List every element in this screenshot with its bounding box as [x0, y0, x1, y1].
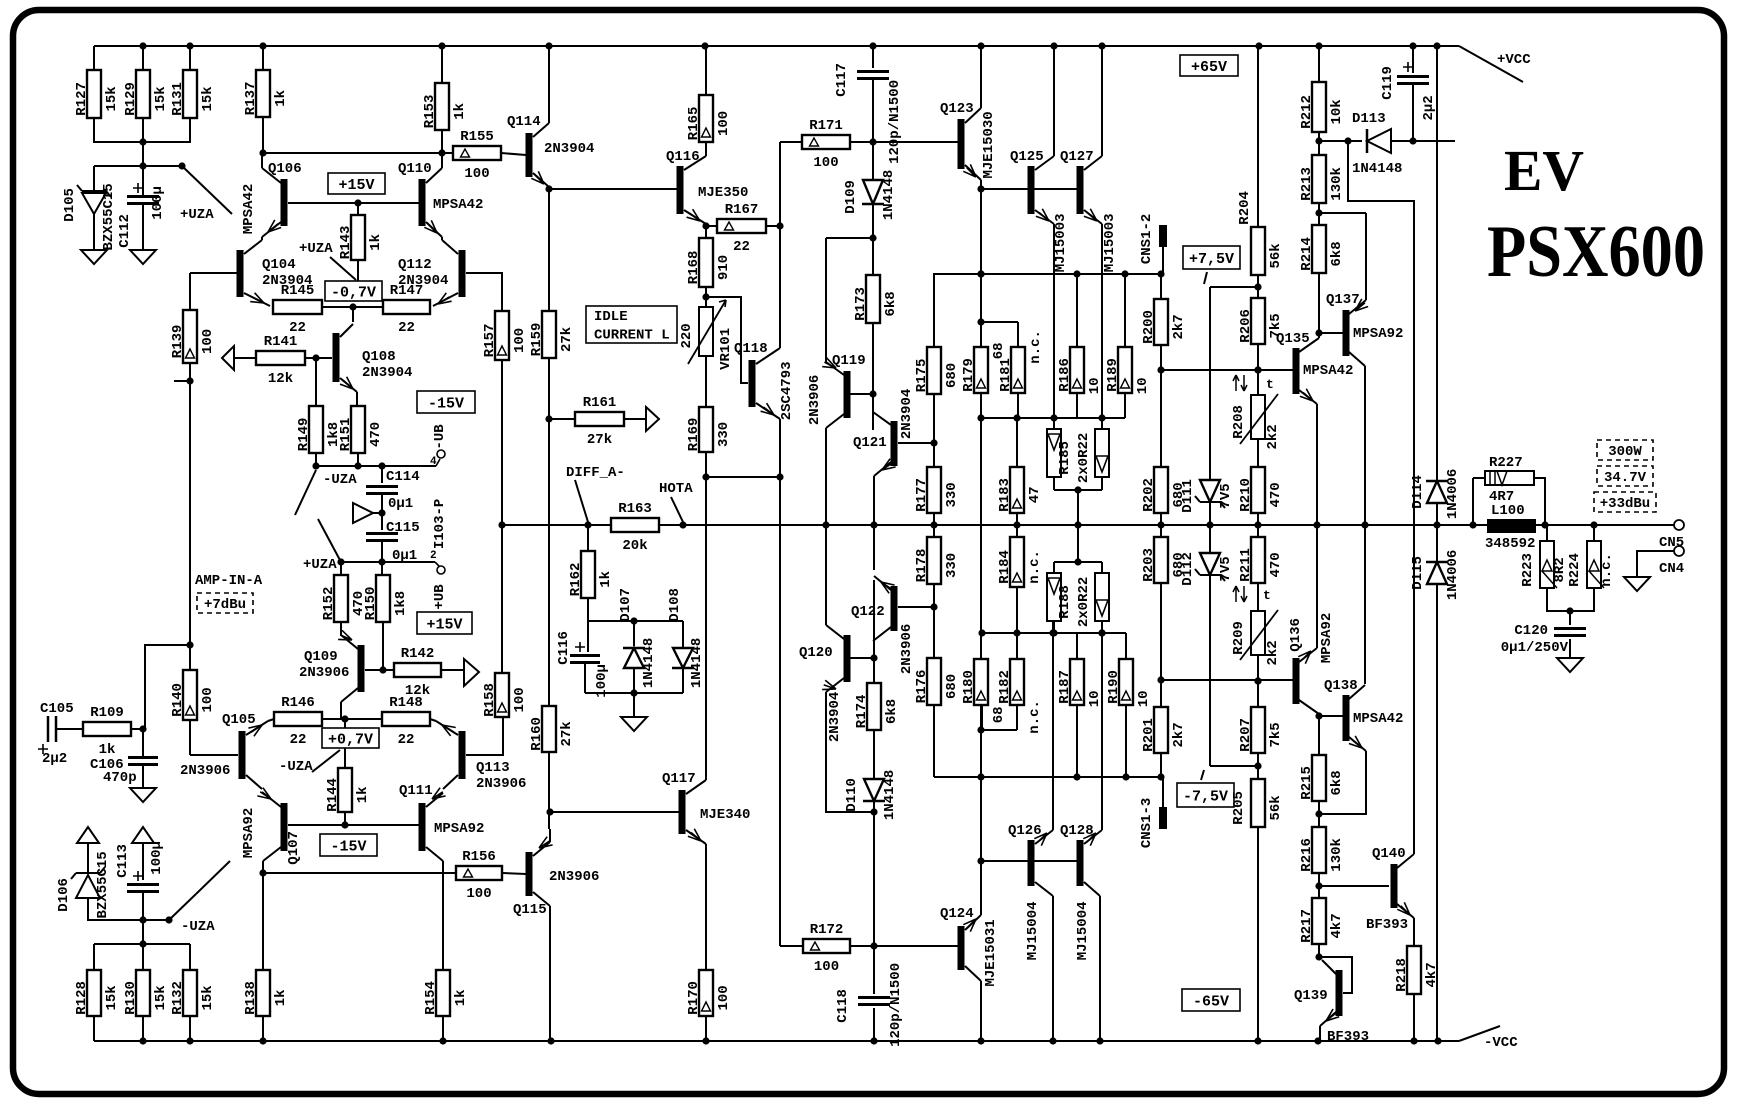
node +UZA — [178, 162, 185, 169]
svg-text:R218: R218 — [1394, 958, 1410, 992]
wire — [373, 512, 382, 514]
svg-text:R165: R165 — [686, 107, 702, 141]
wire — [1053, 621, 1055, 633]
svg-text:MJE15031: MJE15031 — [983, 919, 999, 986]
wire — [189, 944, 191, 970]
svg-text:R130: R130 — [123, 981, 139, 1015]
wire — [825, 525, 827, 625]
wire — [981, 705, 983, 730]
wire — [344, 812, 346, 825]
svg-text:AMP-IN-A: AMP-IN-A — [195, 573, 263, 589]
junction — [1254, 762, 1261, 769]
wire — [441, 153, 443, 168]
junction output bus — [1313, 521, 1320, 528]
junction — [977, 270, 984, 277]
svg-text:D110: D110 — [844, 778, 860, 812]
resistor R168 — [686, 238, 732, 287]
svg-text:R214: R214 — [1299, 237, 1315, 271]
wire HOTA callout — [671, 497, 683, 522]
junction — [312, 354, 319, 361]
svg-text:R171: R171 — [809, 118, 843, 134]
wire — [705, 46, 707, 95]
resistor R218 — [1394, 946, 1440, 994]
zener D105 — [62, 183, 117, 250]
wire — [873, 801, 875, 994]
trimmer R208 — [1231, 394, 1281, 450]
svg-text:Q109: Q109 — [304, 649, 338, 665]
terminal arrow — [77, 827, 99, 843]
svg-text:R160: R160 — [529, 717, 545, 751]
resistor R154 — [423, 970, 469, 1016]
svg-text:-0,7V: -0,7V — [331, 284, 376, 301]
ground — [1624, 577, 1650, 591]
svg-text:R223: R223 — [1520, 553, 1536, 587]
wire — [189, 720, 191, 755]
junction — [186, 641, 193, 648]
wire — [190, 272, 237, 274]
wire — [1318, 873, 1320, 898]
wire — [872, 46, 874, 68]
wire — [779, 142, 781, 348]
wire — [1162, 777, 1164, 807]
svg-text:HOTA: HOTA — [659, 481, 693, 497]
resistor R216 — [1299, 827, 1345, 873]
wire — [1257, 655, 1259, 707]
wire — [305, 357, 332, 359]
svg-text:2k2: 2k2 — [1265, 640, 1281, 665]
wire — [1319, 885, 1389, 887]
junction — [702, 222, 709, 229]
junction — [1050, 414, 1057, 421]
transistor Q116 — [666, 149, 748, 224]
wire — [1547, 588, 1594, 611]
svg-text:Q127: Q127 — [1060, 149, 1094, 165]
svg-text:1N4148: 1N4148 — [881, 170, 897, 220]
wire — [189, 46, 191, 70]
wire -UZA node — [88, 898, 169, 920]
transistor Q125 — [1010, 149, 1069, 272]
svg-text:47: 47 — [1027, 486, 1043, 503]
wire -UZA callout — [169, 894, 196, 920]
svg-text:R132: R132 — [170, 981, 186, 1015]
wire — [1101, 621, 1103, 633]
junction — [977, 414, 984, 421]
svg-text:MJ15003: MJ15003 — [1053, 213, 1069, 272]
wire — [872, 323, 874, 430]
wire — [1077, 525, 1079, 562]
junction bottom bus — [977, 1037, 984, 1044]
resistor R147 — [383, 283, 430, 336]
wire — [585, 692, 683, 694]
wire — [1124, 393, 1126, 418]
svg-text:R224: R224 — [1567, 553, 1583, 587]
svg-text:100: 100 — [813, 155, 838, 171]
resistor R132 — [170, 970, 216, 1016]
junction top bus — [1433, 42, 1440, 49]
wire — [1391, 140, 1455, 142]
wire — [262, 46, 264, 70]
transistor Q139 — [1294, 960, 1369, 1045]
junction — [379, 666, 386, 673]
capacitor C113 — [127, 871, 159, 892]
svg-text:7V5: 7V5 — [1218, 483, 1234, 508]
svg-text:330: 330 — [716, 422, 732, 447]
svg-text:R177: R177 — [914, 478, 930, 512]
voltage box -65V — [1182, 989, 1240, 1011]
resistor R152 — [321, 575, 367, 622]
svg-text:10: 10 — [1087, 377, 1103, 394]
wire — [872, 79, 874, 180]
wire — [825, 428, 827, 525]
junction output bus — [1541, 521, 1548, 528]
svg-text:330: 330 — [944, 553, 960, 578]
resistor R190 — [1106, 659, 1133, 705]
ground — [130, 788, 156, 802]
svg-text:100µ: 100µ — [149, 841, 165, 875]
voltage box +65V — [1180, 55, 1238, 76]
svg-text:910: 910 — [716, 255, 732, 280]
svg-text:C116: C116 — [556, 631, 572, 665]
svg-text:348592: 348592 — [1485, 536, 1535, 552]
svg-text:2N3906: 2N3906 — [299, 665, 349, 681]
svg-text:R147: R147 — [390, 283, 424, 299]
resistor R165 — [686, 95, 732, 142]
wire — [502, 873, 526, 874]
junction — [1566, 607, 1573, 614]
wire — [873, 1008, 875, 1041]
wire — [1016, 513, 1018, 537]
symbol thermal arrows — [1233, 586, 1247, 602]
junction — [870, 808, 877, 815]
svg-text:R203: R203 — [1141, 548, 1157, 582]
junction output bus — [679, 521, 686, 528]
svg-text:R156: R156 — [462, 849, 496, 865]
svg-text:4: 4 — [430, 456, 437, 468]
svg-text:56k: 56k — [1268, 795, 1284, 820]
svg-text:22: 22 — [733, 239, 750, 255]
svg-text:330: 330 — [944, 482, 960, 507]
junction — [1013, 414, 1020, 421]
junction — [259, 869, 266, 876]
wire — [549, 906, 551, 1041]
wire — [1257, 275, 1259, 298]
svg-text:CURRENT L: CURRENT L — [594, 328, 670, 344]
wire — [933, 513, 935, 537]
svg-text:MJE340: MJE340 — [700, 807, 750, 823]
wire — [633, 693, 635, 717]
junction — [546, 808, 553, 815]
svg-text:R162: R162 — [568, 563, 584, 597]
svg-text:-UZA: -UZA — [323, 472, 357, 488]
wire — [826, 692, 874, 812]
svg-text:2N3906: 2N3906 — [899, 624, 915, 674]
svg-text:R141: R141 — [264, 334, 298, 350]
wire dashed — [1201, 770, 1204, 780]
svg-text:R149: R149 — [296, 418, 312, 452]
junction top bus — [977, 42, 984, 49]
wire — [189, 273, 191, 310]
svg-text:Q136: Q136 — [1288, 618, 1304, 652]
wire — [1319, 957, 1352, 993]
junction top bus — [545, 42, 552, 49]
svg-text:470p: 470p — [103, 770, 137, 786]
junction — [1157, 270, 1164, 277]
voltage box +0,7V — [322, 728, 379, 748]
junction — [1049, 629, 1056, 636]
svg-text:R140: R140 — [170, 683, 186, 717]
junction — [977, 773, 984, 780]
svg-text:1N4006: 1N4006 — [1445, 550, 1461, 600]
junction — [1409, 137, 1416, 144]
svg-text:2N3904: 2N3904 — [544, 141, 594, 157]
svg-text:+0,7V: +0,7V — [328, 731, 373, 748]
wire — [93, 944, 95, 970]
wire node -UB — [316, 465, 436, 467]
svg-text:D105: D105 — [62, 188, 78, 222]
wire — [87, 843, 89, 874]
svg-text:R152: R152 — [321, 587, 337, 621]
svg-text:R208: R208 — [1231, 405, 1247, 439]
wire — [381, 562, 383, 575]
ground — [130, 250, 156, 264]
wire — [1160, 274, 1162, 299]
arrow pointer — [353, 503, 373, 523]
wire — [1569, 639, 1571, 658]
svg-text:CNS1-3: CNS1-3 — [1139, 798, 1155, 848]
wire — [682, 621, 684, 648]
svg-text:6k8: 6k8 — [1329, 241, 1345, 266]
svg-text:C119: C119 — [1380, 66, 1396, 100]
junction bottom bus — [1049, 1037, 1056, 1044]
svg-text:6k8: 6k8 — [883, 291, 899, 316]
resistor R206 — [1238, 298, 1284, 344]
svg-text:15k: 15k — [104, 86, 120, 111]
wire — [381, 541, 383, 562]
resistor R128 — [74, 970, 120, 1016]
junction bottom bus — [870, 1037, 877, 1044]
junction — [977, 270, 984, 277]
resistor R130 — [123, 970, 169, 1016]
junction top bus — [869, 42, 876, 49]
wire — [365, 669, 394, 671]
wire — [142, 204, 144, 250]
wire — [1125, 705, 1127, 777]
wire — [633, 621, 635, 646]
wire — [441, 46, 443, 83]
svg-text:27k: 27k — [587, 432, 612, 448]
junction — [1098, 414, 1105, 421]
trimmer VR101 — [679, 300, 734, 370]
wire — [501, 360, 503, 525]
wire — [1077, 490, 1079, 525]
resistor R187 — [1057, 659, 1084, 705]
wire — [262, 1016, 264, 1041]
wire — [1210, 765, 1258, 767]
wire — [873, 730, 875, 779]
wire — [94, 118, 190, 142]
svg-text:680: 680 — [944, 674, 960, 699]
junction — [1074, 558, 1081, 565]
svg-text:D112: D112 — [1180, 552, 1196, 586]
wire — [382, 622, 384, 670]
resistor R141 arrow — [222, 346, 234, 370]
wire — [898, 606, 934, 608]
wire — [1160, 753, 1162, 777]
svg-text:2N3904: 2N3904 — [899, 389, 915, 439]
wire — [357, 203, 359, 215]
wire +UZA callout — [207, 190, 232, 214]
svg-text:BZX55C15: BZX55C15 — [101, 183, 117, 250]
resistor R185 (2x0R22) — [1047, 429, 1109, 483]
svg-text:R128: R128 — [74, 981, 90, 1015]
resistor R177 — [914, 467, 960, 513]
junction — [630, 689, 637, 696]
junction — [438, 149, 445, 156]
svg-text:2x0R22: 2x0R22 — [1076, 577, 1092, 627]
terminal arrow — [132, 827, 154, 843]
svg-text:68: 68 — [991, 342, 1007, 359]
junction top bus — [1050, 42, 1057, 49]
wire -UZA callout — [312, 750, 340, 772]
wire — [1436, 46, 1438, 481]
svg-text:R206: R206 — [1238, 309, 1254, 343]
box 300W — [1597, 440, 1653, 460]
svg-text:R212: R212 — [1299, 95, 1315, 129]
junction top bus — [438, 42, 445, 49]
junction output bus — [1361, 521, 1368, 528]
wire — [1365, 213, 1367, 300]
svg-text:-VCC: -VCC — [1484, 1035, 1518, 1051]
svg-text:1k: 1k — [99, 742, 116, 758]
wire — [142, 166, 144, 196]
wire — [1412, 46, 1414, 73]
svg-text:CNS1-2: CNS1-2 — [1139, 214, 1155, 264]
svg-text:R168: R168 — [686, 251, 702, 285]
junction — [776, 222, 783, 229]
node -UZA — [165, 916, 172, 923]
svg-text:15k: 15k — [153, 86, 169, 111]
svg-text:CN4: CN4 — [1659, 561, 1684, 577]
wire — [548, 46, 550, 123]
wire — [1101, 562, 1103, 573]
wire — [142, 729, 144, 757]
svg-text:Q139: Q139 — [1294, 988, 1328, 1004]
svg-text:2N3904: 2N3904 — [362, 365, 412, 381]
svg-text:D107: D107 — [618, 588, 634, 622]
wire — [288, 202, 419, 204]
svg-text:L100: L100 — [1491, 503, 1525, 519]
wire — [549, 188, 677, 190]
junction — [1344, 137, 1351, 144]
wire — [1053, 477, 1055, 490]
svg-text:470: 470 — [368, 422, 384, 447]
svg-text:C120: C120 — [1514, 623, 1548, 639]
wire — [1017, 322, 1019, 347]
junction bottom bus — [1314, 1037, 1321, 1044]
box IDLE CURRENT L — [586, 306, 677, 344]
transistor Q114 — [507, 114, 594, 187]
svg-text:MPSA42: MPSA42 — [1353, 711, 1403, 727]
svg-text:300W: 300W — [1608, 444, 1642, 460]
wire — [1348, 141, 1414, 854]
junction — [1254, 677, 1261, 684]
wire DIFF_A- callout — [575, 480, 588, 522]
ground — [81, 250, 107, 264]
wire — [1016, 633, 1018, 659]
svg-text:R131: R131 — [170, 82, 186, 116]
wire — [268, 719, 274, 721]
wire — [1318, 46, 1320, 82]
svg-text:1k: 1k — [355, 786, 371, 803]
wire — [1569, 611, 1571, 625]
resistor R188 (2x0R22) — [1047, 573, 1109, 627]
junction output bus — [1254, 521, 1261, 528]
voltage box -15V — [320, 834, 377, 856]
svg-text:R155: R155 — [460, 129, 494, 145]
wire — [587, 525, 589, 551]
wire — [1316, 404, 1318, 525]
junction top bus — [701, 42, 708, 49]
wire — [1101, 46, 1103, 156]
svg-text:10: 10 — [1136, 690, 1152, 707]
svg-text:-15V: -15V — [330, 838, 366, 855]
svg-text:Q113: Q113 — [476, 760, 510, 776]
junction — [354, 462, 361, 469]
junction output bus — [1206, 521, 1213, 528]
wire — [340, 562, 342, 575]
wire — [1436, 584, 1438, 1041]
resistor R215 — [1299, 755, 1345, 801]
svg-text:2: 2 — [430, 550, 437, 562]
wire — [1161, 679, 1293, 681]
voltage box -0,7V — [325, 281, 382, 301]
resistor R155 — [453, 129, 501, 182]
voltage box -7,5V — [1177, 783, 1234, 807]
svg-text:R154: R154 — [423, 981, 439, 1015]
svg-text:Q126: Q126 — [1008, 823, 1042, 839]
wire — [1054, 561, 1102, 563]
svg-text:15k: 15k — [153, 985, 169, 1010]
wire — [1076, 274, 1078, 347]
terminal -UB — [430, 424, 448, 468]
resistor R203 — [1141, 537, 1187, 583]
svg-text:15k: 15k — [104, 985, 120, 1010]
svg-text:2N3904: 2N3904 — [827, 692, 843, 742]
wire — [850, 393, 873, 395]
transistor Q126 — [1008, 823, 1053, 960]
svg-text:MPSA92: MPSA92 — [241, 808, 257, 858]
svg-text:+UB: +UB — [432, 584, 448, 610]
junction — [1315, 712, 1322, 719]
svg-text:BZX55C15: BZX55C15 — [95, 851, 111, 918]
wire — [142, 843, 144, 880]
svg-text:100: 100 — [464, 166, 489, 182]
resistor R170 — [686, 970, 732, 1016]
wire — [1257, 344, 1259, 395]
wire — [933, 394, 935, 467]
symbol thermal arrows — [1233, 375, 1247, 391]
wire — [1318, 203, 1320, 225]
wire +UZA callout — [318, 519, 341, 562]
resistor R131 — [170, 70, 216, 118]
ground — [1557, 658, 1583, 672]
junction — [1157, 676, 1164, 683]
junction bottom bus — [1434, 1037, 1441, 1044]
connector CNS1-3 — [1139, 798, 1167, 848]
junction — [378, 462, 385, 469]
resistor R143 — [338, 215, 384, 260]
transistor Q137 — [1326, 292, 1403, 366]
